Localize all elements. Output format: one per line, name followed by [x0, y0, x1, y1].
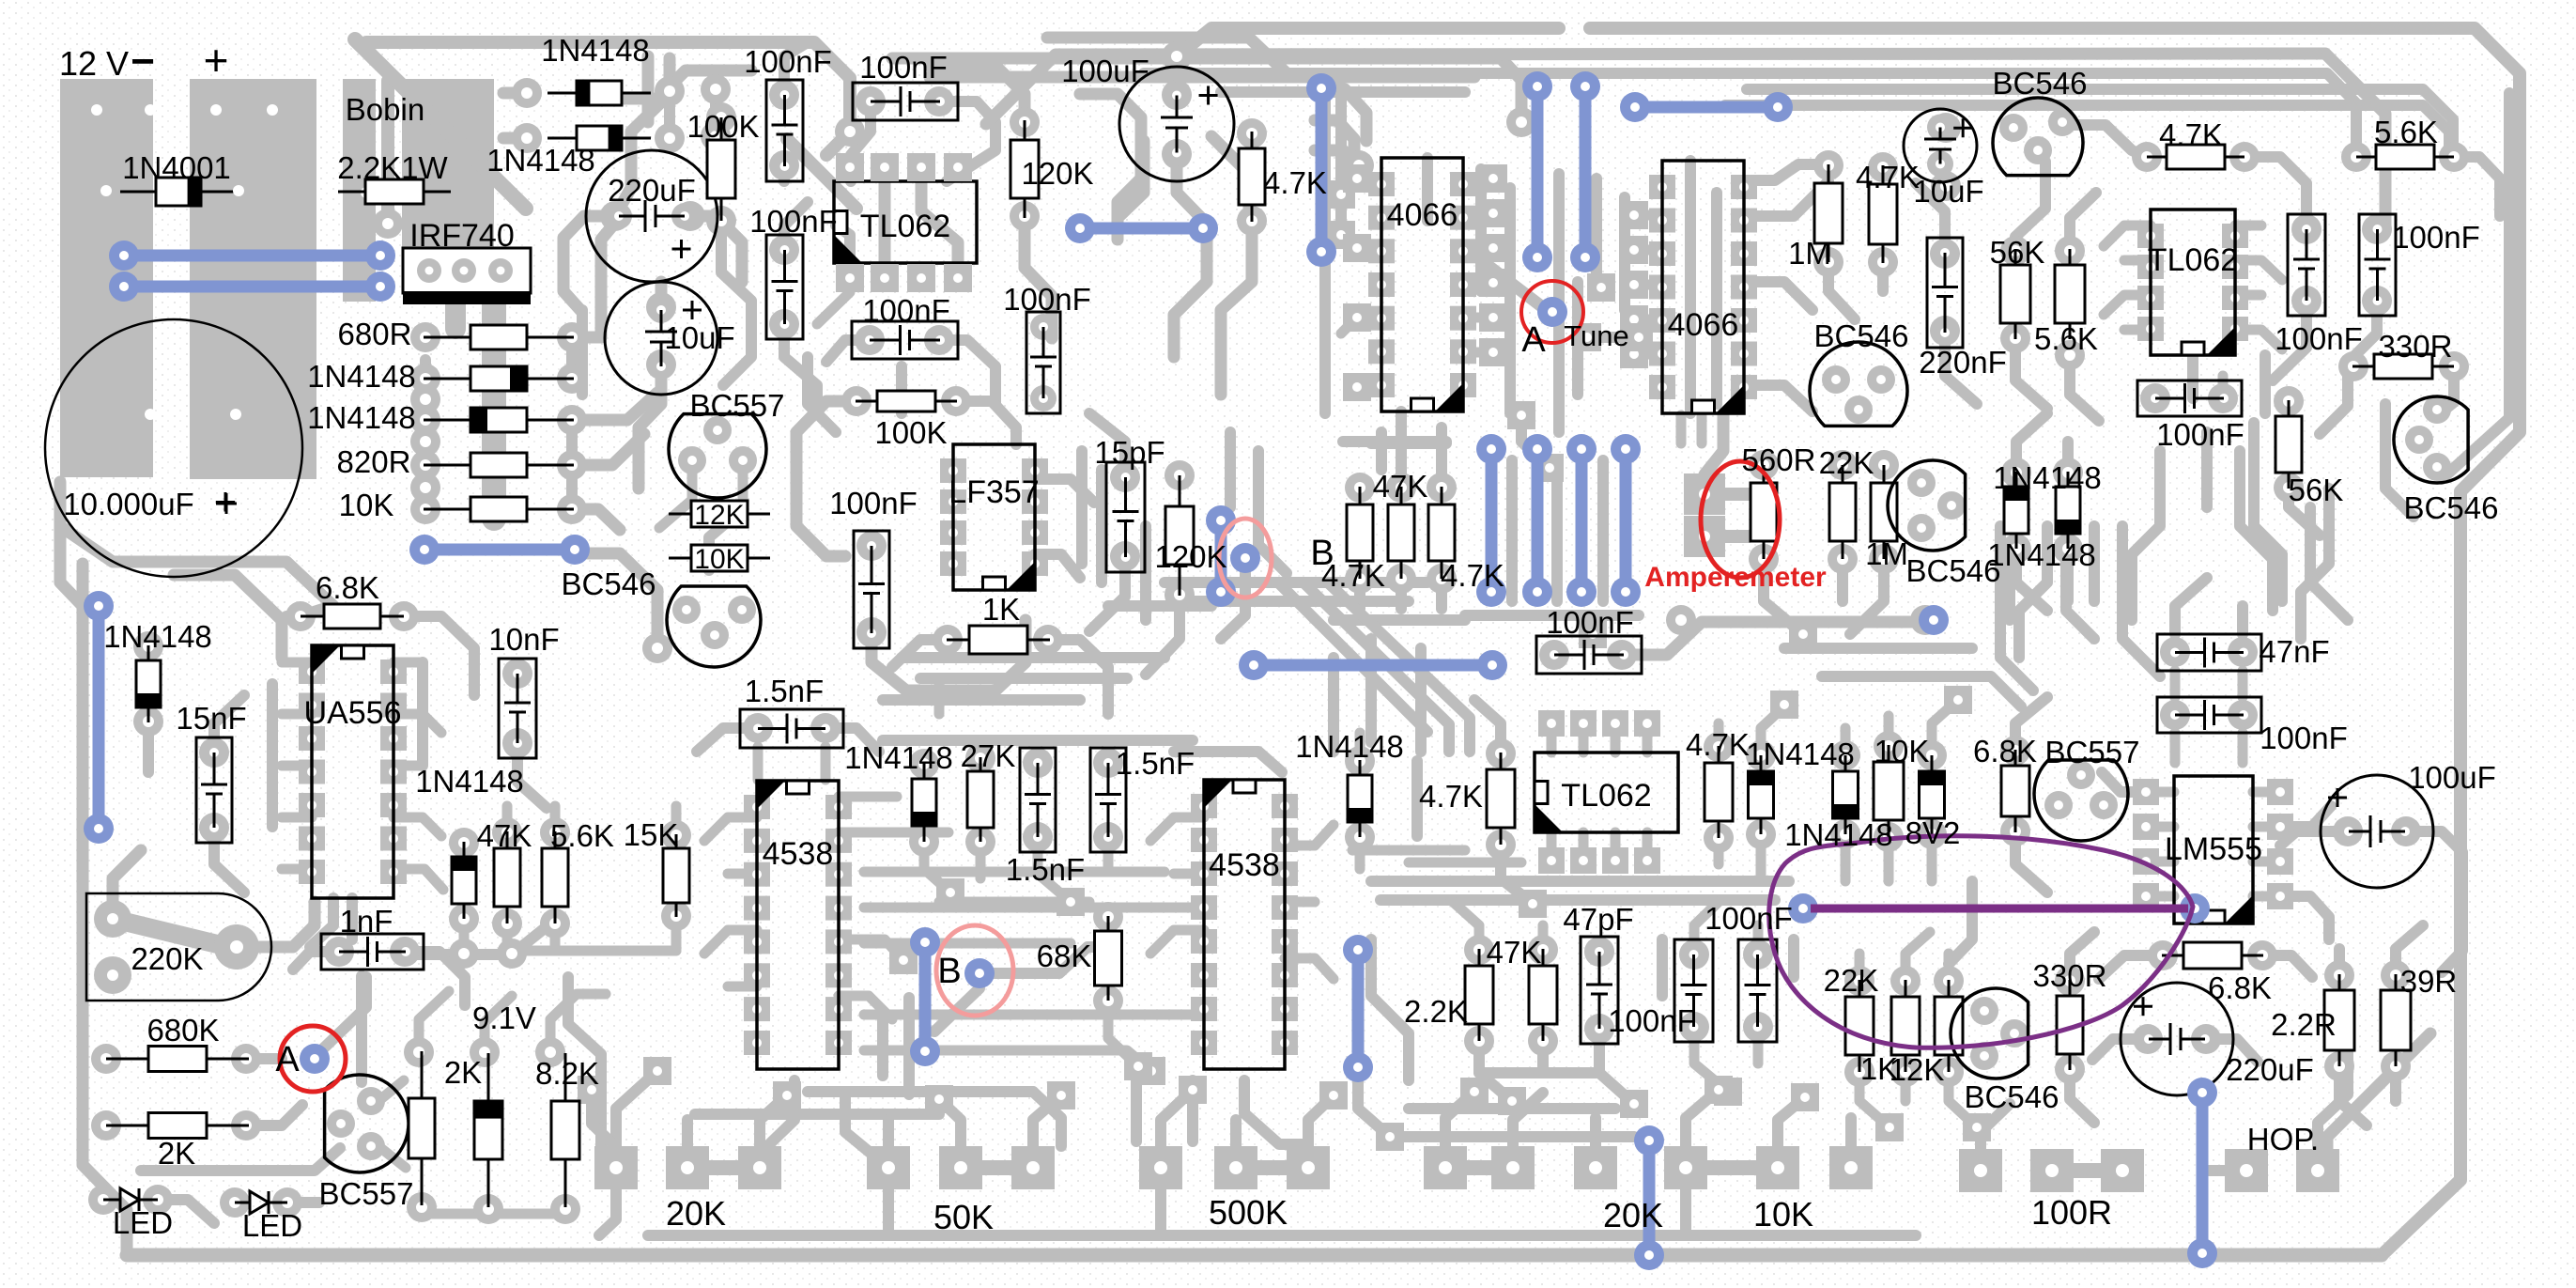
pad [1746, 740, 1776, 770]
wire [1108, 600, 1211, 612]
transistor BC546 [1888, 460, 1966, 551]
wire [864, 867, 1165, 877]
wire [378, 1146, 406, 1168]
svg-text:220K: 220K [131, 941, 203, 976]
wire [572, 509, 620, 530]
resistor 680K [106, 1047, 249, 1072]
wire [1788, 939, 1799, 977]
copper fill hole [91, 104, 102, 116]
pad [502, 728, 532, 758]
IC 4538 [1191, 780, 1298, 1069]
pad [2439, 351, 2469, 381]
svg-text:220nF: 220nF [1919, 345, 2007, 380]
svg-text:1N4148: 1N4148 [1987, 537, 2096, 572]
wire [1884, 837, 1894, 881]
capacitor 1.5nF [1020, 748, 1056, 852]
pad [557, 494, 587, 524]
pad via [1579, 620, 1607, 648]
wire [690, 216, 742, 282]
svg-text:100nF: 100nF [1704, 901, 1793, 936]
pad [2267, 779, 2293, 805]
wire [2406, 831, 2462, 902]
pad [389, 601, 419, 631]
diode 1N4148 [2004, 472, 2028, 549]
svg-text:680R: 680R [338, 317, 412, 351]
wire [864, 939, 1071, 949]
svg-text:2.2K: 2.2K [1404, 994, 1468, 1029]
pad [449, 904, 479, 934]
svg-text:LF357: LF357 [949, 474, 1039, 510]
wire [1855, 954, 1865, 981]
copper fill 12V plus rail [190, 79, 316, 479]
wire [1396, 579, 1407, 609]
pad [835, 116, 865, 147]
wire [282, 709, 312, 720]
wire [1185, 596, 1409, 607]
jumper wire [1343, 935, 1373, 1082]
capacitor 100uF [2321, 775, 2433, 888]
wire [1035, 554, 1080, 578]
svg-text:BC557: BC557 [319, 1176, 414, 1211]
pad [143, 1185, 173, 1215]
wire [1944, 954, 1954, 981]
wire [779, 165, 790, 181]
op-amp LF357 [940, 444, 1048, 590]
resistor 10K [669, 545, 770, 571]
pad via [1620, 201, 1648, 229]
wire [517, 743, 547, 808]
wire [1686, 1090, 1719, 1147]
wire [1335, 94, 1347, 235]
svg-text:10nF: 10nF [488, 622, 559, 657]
wire [2000, 526, 2033, 691]
wire [1822, 676, 2021, 706]
pad [1486, 830, 1516, 860]
svg-text:68K: 68K [1037, 939, 1092, 973]
wire [2015, 831, 2047, 892]
pad trimmer 20K [594, 1146, 638, 1189]
transistor BC546 [2394, 396, 2468, 483]
wire [1590, 1118, 1601, 1147]
wire [141, 1148, 340, 1171]
pad [2247, 940, 2277, 970]
pad [1162, 139, 1192, 169]
pad [1602, 710, 1628, 737]
pad trimmer 20K [1491, 1146, 1535, 1189]
pad [924, 325, 954, 355]
wire [839, 939, 903, 960]
pad via [1791, 1083, 1819, 1111]
pad [2291, 286, 2321, 316]
pad [2055, 966, 2085, 996]
pad [1570, 847, 1597, 874]
wire [892, 58, 1521, 122]
wire [1150, 930, 1204, 954]
pad via [578, 1076, 606, 1104]
svg-text:2.2R: 2.2R [2271, 1007, 2337, 1042]
capacitor 100nF [852, 321, 958, 359]
svg-text:4.7K: 4.7K [2159, 117, 2223, 152]
pad [1110, 462, 1140, 492]
resistor 8.2K [551, 1053, 579, 1207]
wire [784, 324, 817, 413]
wire [2310, 507, 2348, 620]
resistor 22K [1829, 465, 1856, 559]
svg-text:100nF: 100nF [862, 293, 950, 328]
red ellipse Amperemeter [1701, 461, 1780, 578]
wire [1932, 700, 1958, 755]
pad [871, 264, 899, 292]
svg-text:1N4148: 1N4148 [541, 33, 650, 68]
pad [1874, 822, 1904, 852]
pad [407, 1192, 437, 1222]
pad [1910, 605, 1940, 635]
pad [655, 76, 685, 106]
pad via [1770, 691, 1798, 719]
wire [507, 946, 676, 956]
pad via [1587, 273, 1615, 302]
pad [2333, 816, 2363, 846]
pad [449, 939, 479, 969]
wire [2070, 1069, 2094, 1123]
svg-text:4.7K: 4.7K [1263, 165, 1327, 200]
pad [1634, 710, 1660, 737]
capacitor 10uF [605, 282, 717, 395]
pad [924, 86, 954, 116]
wire [282, 658, 312, 668]
pad [1345, 473, 1375, 503]
pad [473, 1194, 503, 1224]
LED 1 [103, 1188, 158, 1211]
pad [1930, 316, 1960, 346]
svg-text:100nF: 100nF [859, 50, 948, 85]
wire [1463, 243, 1493, 254]
wire [1579, 723, 1589, 753]
wire [2238, 733, 2248, 763]
pad [2341, 142, 2371, 172]
wire [1221, 86, 1465, 98]
wire [409, 949, 512, 960]
wire [930, 71, 1474, 84]
wire [1025, 216, 1052, 338]
wire [639, 365, 661, 489]
wire [2015, 338, 2047, 409]
wire [2124, 256, 2151, 266]
resistor 1K [1891, 980, 1920, 1072]
capacitor 100nF [1026, 312, 1060, 413]
svg-text:22K: 22K [1819, 445, 1874, 480]
diode 1N4148 [136, 645, 161, 722]
svg-text:100nF: 100nF [1003, 282, 1091, 317]
wire [420, 360, 431, 512]
wire [1657, 939, 1668, 996]
pad [2148, 940, 2178, 970]
wire [1308, 1095, 1334, 1147]
wire [1319, 89, 1331, 413]
wire [1108, 1001, 1138, 1066]
pad [1033, 625, 1063, 655]
wire [2019, 526, 2047, 658]
pad [2000, 236, 2030, 266]
capacitor 15pF [1106, 462, 1145, 572]
wire [599, 1189, 616, 1235]
wire [1415, 648, 1427, 752]
wire [1634, 349, 1662, 360]
wire [845, 1094, 883, 1163]
wire [2170, 733, 2181, 763]
pad [701, 74, 731, 104]
wire [286, 611, 301, 622]
svg-text:120K: 120K [1154, 539, 1226, 574]
purple loop annotation [1769, 836, 2193, 1048]
pad [133, 706, 163, 737]
wire [174, 575, 282, 658]
wire [566, 337, 578, 379]
wire [2454, 157, 2500, 216]
wire [784, 42, 808, 95]
pad [1749, 544, 1779, 574]
wire [1236, 1160, 1308, 1175]
pad [410, 494, 440, 524]
resistor 1M [1814, 164, 1843, 262]
wire [1845, 1118, 1857, 1147]
diode 1N4148 [1348, 760, 1372, 837]
wire [1590, 28, 2520, 1255]
jumper wire [84, 591, 114, 844]
pad [2000, 816, 2030, 846]
pad HOP [2296, 1149, 2339, 1192]
resistor 47K [1529, 949, 1557, 1041]
wire [1711, 193, 1722, 404]
resistor 22K [1845, 980, 1874, 1072]
wire [502, 923, 513, 951]
wire [1744, 181, 1828, 216]
wire [2102, 772, 2146, 792]
wire [568, 977, 601, 1118]
resistor 100K [856, 391, 957, 411]
capacitor 100nF [1536, 636, 1642, 674]
wire [1225, 432, 1236, 507]
wire [883, 1189, 894, 1234]
pad [404, 1037, 434, 1067]
wire [2253, 822, 2280, 832]
wire [282, 761, 312, 771]
svg-text:100nF: 100nF [749, 204, 838, 239]
pad [410, 364, 440, 394]
wire [1174, 869, 1204, 879]
pad [497, 939, 527, 969]
wire [2187, 355, 2198, 398]
wire [1945, 331, 1977, 404]
wire [2122, 526, 2160, 676]
wire [1445, 1160, 1513, 1175]
pad [1162, 41, 1192, 71]
wire [282, 813, 312, 823]
wire [60, 482, 333, 616]
wire [659, 466, 692, 528]
resistor 47K [1388, 487, 1414, 579]
svg-text:2K: 2K [444, 1055, 482, 1090]
node B pad [964, 958, 995, 988]
svg-text:100uF: 100uF [1061, 54, 1149, 88]
node A Tune pad [1537, 297, 1567, 327]
transistor BC546 [1810, 342, 1907, 426]
wire [503, 87, 527, 100]
pad [2362, 214, 2392, 244]
capacitor 15nF [196, 737, 232, 843]
pad [646, 292, 676, 322]
wire [671, 806, 682, 835]
wire [1155, 1189, 1166, 1234]
pad [2055, 236, 2085, 266]
svg-text:5.6K: 5.6K [550, 818, 614, 853]
wire [572, 434, 644, 465]
wire [939, 897, 1089, 908]
pad trimmer 20K [1424, 1146, 1467, 1189]
pad via [1789, 620, 1817, 648]
pad via [1479, 303, 1507, 332]
pad [1917, 819, 1947, 849]
wire [1744, 282, 1812, 310]
pad [1828, 450, 1858, 480]
pad [557, 450, 587, 480]
wire [1714, 838, 1724, 864]
resistor 2.2K1W [338, 179, 451, 204]
pad [1538, 847, 1565, 874]
wire [721, 221, 751, 385]
wire [2197, 1171, 2208, 1184]
svg-text:22K: 22K [1824, 963, 1879, 998]
wire [892, 640, 948, 667]
wire [1211, 136, 1249, 225]
pad [1931, 171, 1961, 201]
resistor 68K [1095, 916, 1122, 1001]
wire [1538, 925, 1549, 950]
wire [1850, 559, 1884, 634]
wire [883, 694, 1080, 706]
wire [563, 216, 615, 310]
wire [1859, 1072, 1890, 1127]
resistor 47K [494, 831, 520, 923]
wire [60, 526, 83, 606]
wire [158, 1200, 214, 1223]
wire [1619, 197, 1630, 310]
LED 2 [235, 1191, 287, 1214]
svg-text:10K: 10K [339, 488, 394, 522]
svg-text:1N4148: 1N4148 [103, 619, 212, 654]
wire [2052, 1163, 2122, 1178]
wire [1285, 958, 1334, 979]
svg-text:BC546: BC546 [1993, 66, 2088, 101]
wire [697, 728, 758, 752]
wire [1285, 897, 1315, 908]
svg-text:20K: 20K [666, 1194, 726, 1233]
wire [1244, 1080, 1308, 1144]
wire [2253, 892, 2280, 902]
wire [2062, 442, 2074, 473]
svg-text:47K: 47K [1373, 469, 1428, 504]
pad [2000, 736, 2030, 766]
wire [615, 58, 670, 216]
svg-text:TL062: TL062 [2148, 242, 2238, 278]
wire [347, 898, 358, 939]
pad trimmer 100R [1959, 1149, 2002, 1192]
pad [2133, 883, 2159, 909]
wire [2438, 366, 2454, 415]
svg-text:4538: 4538 [763, 836, 834, 872]
pad [2053, 458, 2083, 488]
pad [2291, 214, 2321, 244]
pad via [1327, 221, 1355, 249]
wire [992, 947, 1108, 973]
wire [1694, 1027, 1728, 1092]
copper fill Bobin pad right [402, 79, 494, 247]
wire [1479, 1067, 1597, 1079]
svg-text:1nF: 1nF [340, 904, 393, 939]
svg-text:330R: 330R [2379, 329, 2453, 364]
wire [2218, 376, 2229, 398]
wire [1334, 614, 1465, 626]
pad [540, 817, 570, 847]
wire [1174, 154, 1207, 357]
pad via [1479, 164, 1507, 193]
svg-text:2.2K1W: 2.2K1W [337, 150, 448, 185]
wire [572, 393, 657, 420]
wire [2318, 1032, 2348, 1171]
pad [1538, 710, 1565, 737]
wire [2124, 325, 2151, 335]
resistor 6.8K [301, 604, 404, 628]
wire [1744, 164, 1828, 180]
pad [410, 405, 440, 435]
pad [2133, 779, 2159, 805]
wire [575, 553, 657, 648]
jumper wire [1611, 434, 1641, 607]
op-amp TL062 [2137, 209, 2248, 355]
wire [459, 919, 470, 949]
wire [315, 977, 366, 1057]
pad via [1057, 888, 1085, 916]
wire [550, 806, 561, 832]
wire [1622, 622, 1925, 655]
wire [934, 678, 945, 714]
svg-text:4066: 4066 [1387, 197, 1458, 233]
pad [909, 827, 939, 857]
wire [566, 420, 578, 509]
wire [1330, 584, 1470, 752]
wire [393, 817, 441, 836]
copper fill hole [267, 104, 278, 116]
svg-text:220uF: 220uF [608, 173, 696, 208]
pad [642, 633, 672, 663]
wire [1230, 1120, 1242, 1147]
wire [1473, 254, 1552, 315]
pad via [1343, 234, 1371, 262]
capacitor 1nF [321, 934, 424, 970]
wire [1221, 221, 1252, 395]
svg-text:100nF: 100nF [2156, 417, 2244, 452]
wire [1949, 881, 1972, 964]
svg-text:1.5nF: 1.5nF [745, 674, 824, 708]
svg-text:B: B [937, 952, 961, 991]
wire [1884, 716, 1894, 746]
svg-text:2K: 2K [158, 1136, 195, 1171]
diode 1N4148 [452, 842, 476, 919]
pad [2381, 960, 2411, 990]
via pad [1919, 605, 1949, 635]
pad [390, 937, 420, 967]
wire [753, 747, 764, 780]
